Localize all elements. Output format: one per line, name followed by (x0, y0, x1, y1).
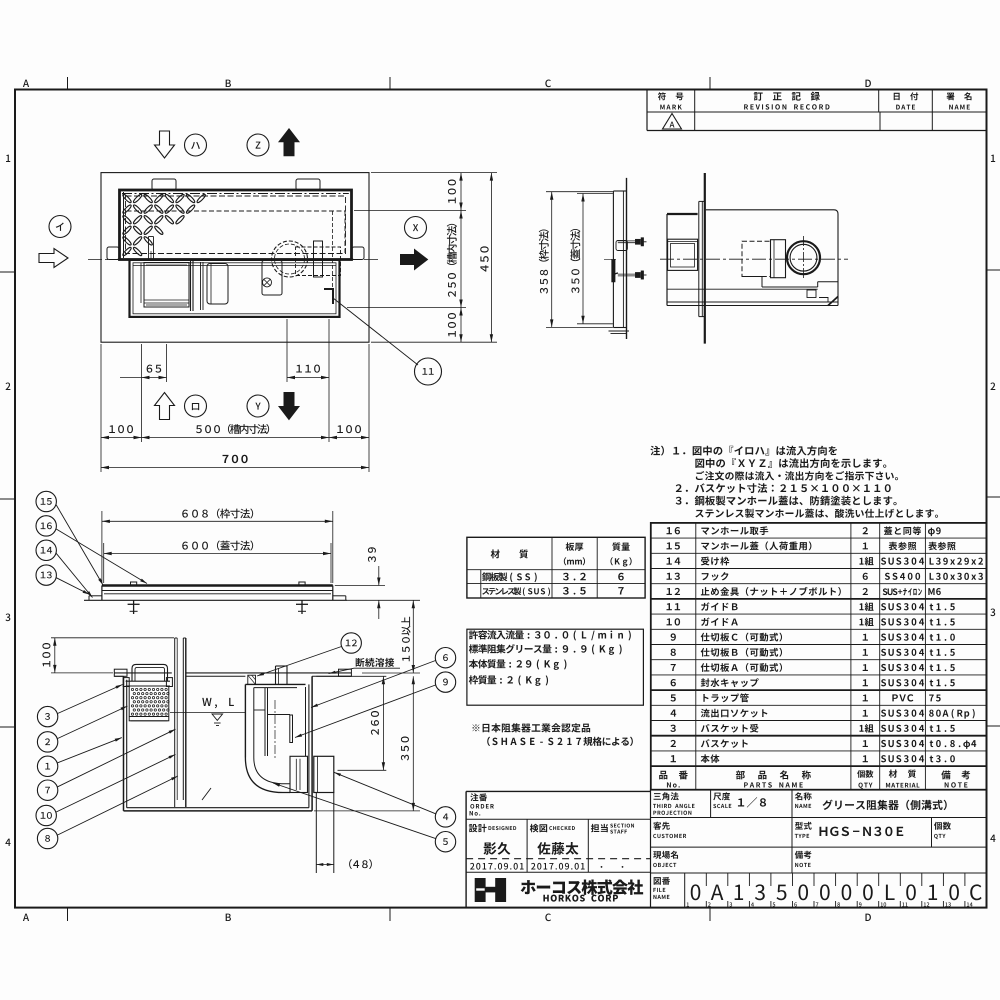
node circle X (405, 217, 427, 239)
dimension 150min (362, 672, 420, 674)
title block order cell (466, 818, 650, 820)
company logo H mark (475, 878, 486, 902)
dimension 65 (142, 377, 167, 379)
plan view basket handle folded (148, 237, 150, 260)
parts row ２ バスケット (671, 740, 676, 747)
plan view flow arrow hollow right (inlet side) (39, 249, 68, 268)
dimension 100 right (329, 437, 369, 439)
dimension 100 standpipe height (51, 637, 174, 639)
section outlet socket (290, 756, 308, 792)
revision record table (646, 90, 648, 131)
section view slab top lines (114, 672, 172, 674)
section tank bottom (124, 810, 313, 812)
revision triangle mark A (663, 114, 682, 130)
section frame profile left (114, 669, 127, 676)
cover frame lips (89, 595, 102, 597)
site cell (653, 851, 661, 859)
parts row １５ マンホール蓋（人荷重用） (667, 542, 672, 549)
cover assembly mid and bottom lines (102, 590, 333, 592)
node circle i (49, 216, 71, 238)
plan view flow arrow solid down (279, 393, 299, 420)
side view clamp bracket (616, 241, 627, 251)
parts list table (651, 523, 987, 790)
parts row ４ 流出口ソケット (670, 710, 676, 717)
plan view right dimension extension lines (371, 172, 497, 174)
side view 350 dim (577, 193, 613, 195)
dimension 100 left (101, 437, 142, 439)
section weld tick (202, 788, 211, 800)
balloon 14 (36, 540, 56, 560)
side view mounting flange (698, 201, 700, 316)
designer name (484, 842, 497, 854)
qty cell (934, 822, 942, 830)
parts row ５ トラップ管 (670, 694, 675, 701)
dimension 260 (316, 675, 386, 677)
side view outlet socket circles (787, 241, 820, 274)
leader lines for balloons 13-16 (56, 505, 103, 586)
balloon 10 (36, 805, 56, 825)
parts row １２ 止め金具（ナット＋ノブボルト） (667, 588, 672, 595)
plan view diamond-plate hatch on cover (122, 193, 206, 256)
side view 358 dim (546, 191, 613, 193)
plan view flow arrow solid up (279, 129, 299, 156)
side view body bottom steps (742, 276, 762, 278)
side view body top-left thick (667, 213, 698, 215)
plan view outer pit rectangle (101, 173, 369, 343)
parts row ９ 仕切板Ｃ（可動式） (671, 633, 676, 640)
plan view tank flange rect thick (120, 190, 352, 260)
parts row ８ 仕切板Ｂ（可動式） (671, 649, 676, 656)
plan view flow arrow hollow up (155, 393, 175, 420)
plan view leader to balloon 11 (333, 298, 418, 365)
plan view manhole handle top-left (152, 179, 176, 190)
node circle ha (185, 134, 207, 156)
notes text block (650, 446, 660, 456)
plan view trap pipe dashed circle (272, 241, 308, 277)
parts row １６ マンホール取手 (667, 527, 672, 534)
parts row １３ フック (667, 573, 672, 580)
balloon 15 (36, 491, 56, 511)
section tank left wall (123, 676, 125, 811)
section outlet drop pipe (315, 793, 317, 874)
section frame profile right (339, 669, 352, 676)
parts row １４ 受け枠 (667, 558, 672, 565)
section basket handle (132, 664, 168, 681)
zone labels bottom (23, 914, 29, 921)
parts row ７ 仕切板Ａ（可動式） (671, 664, 676, 671)
plan view flow arrow hollow down (inlet) (155, 131, 175, 158)
checker name (537, 842, 550, 855)
dimension (48) (316, 864, 334, 866)
plan view centerline (88, 259, 380, 261)
company name (521, 880, 536, 894)
plan view cover dashed inner lines (126, 196, 346, 254)
dimension 600 cover width (103, 543, 105, 583)
plan view hook left (107, 247, 119, 260)
dimension 608 frame width (101, 511, 103, 583)
weld note text (356, 658, 365, 667)
side view trench wall line (704, 173, 706, 344)
plan view nut symbol (263, 278, 272, 287)
balloon 9 (435, 672, 455, 692)
plan view seal cap below center (262, 261, 282, 296)
section trap vent stub (275, 666, 277, 684)
name cell (795, 792, 802, 800)
plan view outlet socket hidden dashed (296, 247, 341, 276)
section partition plate C (290, 715, 293, 743)
dates (470, 863, 474, 870)
spec box (467, 629, 644, 705)
parts row １ 本体 (671, 755, 676, 762)
side view centerline short left (604, 258, 617, 260)
side view cover plate edge-on (612, 191, 614, 328)
balloon 5 (435, 832, 455, 852)
node circle Z (247, 134, 269, 156)
side view clamp black bar (612, 259, 616, 282)
dimension 110 (287, 377, 329, 379)
dimension 100 top right (460, 173, 462, 343)
balloon 3 (37, 706, 57, 726)
section frame brackets at opening (123, 678, 129, 687)
dimension 450 right (490, 173, 492, 343)
side view cover foot (609, 330, 630, 332)
dimension 250 right (459, 211, 462, 219)
parts row １１ ガイドＢ (667, 603, 672, 610)
node circle Y (247, 395, 269, 417)
section tank right wall (308, 684, 310, 807)
sheet border frame (15, 90, 987, 908)
side view bolt upper (618, 240, 636, 242)
balloon 4 (435, 807, 455, 827)
customer cell (653, 822, 661, 830)
title block outer (465, 791, 467, 907)
parts row ３ バスケット受 (670, 725, 675, 732)
side view trap cap rect (771, 240, 786, 278)
title block designer row (526, 819, 528, 872)
balloon 12 (341, 633, 361, 653)
balloon 7 (37, 780, 57, 800)
drawing number cells (691, 884, 701, 900)
balloon 6 (435, 648, 455, 668)
parts table header (659, 771, 667, 780)
plan view guide B thick corner (324, 289, 333, 304)
side view body top-right and right edge (706, 210, 838, 306)
plan view partition C rounded (207, 264, 228, 305)
parts row １０ ガイドＡ (667, 618, 672, 625)
water level line (170, 711, 245, 713)
balloon 11 (415, 358, 442, 385)
side view bottom small details (807, 290, 816, 298)
plan view hook right (352, 247, 364, 260)
plan view partition plates edge-on (190, 261, 192, 312)
parts row ６ 封水キャップ (671, 679, 676, 686)
type cell (795, 822, 803, 830)
projection cell (654, 793, 661, 800)
plan view outlet stand pipe (314, 241, 323, 277)
cover handle right (299, 582, 305, 586)
side view bolt lower (618, 273, 636, 275)
dashed separator line (466, 858, 650, 860)
balloon 13 (36, 565, 56, 585)
water level symbol (202, 698, 211, 706)
cover assembly view top line (102, 584, 333, 587)
section trap pipe walls (264, 688, 266, 756)
plan view hidden opening dashed (127, 210, 346, 212)
section clamp bolt item12 (248, 675, 256, 684)
scale cell (713, 793, 721, 801)
cover handle left (131, 582, 137, 586)
dimension 700 (101, 467, 369, 469)
zone labels top (23, 80, 29, 87)
node circle ro (185, 395, 207, 417)
section trap pipe centerline (274, 700, 276, 760)
zone labels left (6, 155, 10, 162)
plan view lower half-section rect thick (130, 260, 340, 317)
dimension 500 (142, 437, 330, 439)
balloon 2 (37, 732, 57, 752)
dimension 39 cover thickness (335, 585, 385, 587)
plan view bottom dimension extension lines (100, 344, 102, 472)
side view inlet box (668, 239, 698, 270)
file name cell (654, 877, 661, 885)
balloon 16 (36, 516, 56, 536)
plan view flow arrow solid right (401, 250, 428, 270)
company name en (543, 895, 548, 902)
balloon 1 (37, 756, 57, 776)
title block right section lines (650, 790, 652, 908)
dimension 100 bottom right (459, 308, 462, 316)
section inlet standpipe (174, 638, 176, 807)
zone labels right (991, 155, 995, 162)
plan view basket (144, 263, 189, 308)
section elbow trap pipe (245, 758, 290, 793)
dimension 350 section (314, 810, 420, 812)
side view trap hidden dashed box (742, 241, 771, 276)
section trap box (244, 684, 246, 757)
plan view manhole handle top-right (296, 179, 320, 190)
side view centerline (660, 258, 848, 260)
section basket (126, 680, 170, 682)
balloon 8 (37, 828, 57, 848)
note cell (795, 851, 803, 859)
certification note (472, 724, 479, 731)
material table (467, 537, 645, 598)
